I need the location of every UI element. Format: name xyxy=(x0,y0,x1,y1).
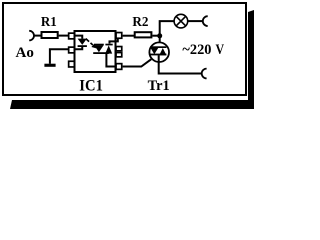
shadow right xyxy=(248,10,254,109)
wire lamp to top terminal xyxy=(187,20,202,22)
wire junction up to lamp xyxy=(160,21,175,37)
phototriac triangle down xyxy=(94,45,103,52)
IC1 pin right 4 xyxy=(116,64,122,70)
ground wire from IC1 pin left 2 xyxy=(50,49,69,64)
IC1 pin right 2 xyxy=(116,47,122,51)
IC1 pin left 2 xyxy=(69,47,75,53)
triac Tr1 triangle up xyxy=(159,48,166,55)
phototriac bottom bar xyxy=(93,52,109,54)
lamp cross stroke 1 xyxy=(176,16,185,25)
lamp cross stroke 2 xyxy=(176,16,185,25)
triac Tr1 top bar xyxy=(150,46,166,48)
svg-text:Ao: Ao xyxy=(16,44,35,61)
LED triangle inside IC1 xyxy=(78,39,87,45)
resistor R2 xyxy=(135,32,152,37)
LED cathode lead to pin left 2 xyxy=(75,47,83,49)
junction dot xyxy=(157,33,162,38)
phototriac lead to pin right 4 xyxy=(106,54,116,67)
node A0 terminal xyxy=(29,31,34,41)
svg-text:Tr1: Tr1 xyxy=(148,78,170,94)
phototriac top bar left xyxy=(94,44,104,46)
triac Tr1 circle xyxy=(149,42,169,62)
phototriac lead to pin right 1 xyxy=(110,39,118,44)
resistor R1 xyxy=(42,32,58,38)
LED anode lead inside IC1 xyxy=(75,36,83,39)
wire Tr1 down to bottom terminal xyxy=(159,55,202,73)
optocoupler IC1 body xyxy=(75,31,116,72)
IC1 pin right 3 xyxy=(116,53,122,57)
svg-text:R1: R1 xyxy=(41,14,57,29)
wire R1 to IC1 pin xyxy=(59,35,69,37)
wire junction down to Tr1 xyxy=(159,36,161,47)
LED cathode bar xyxy=(78,45,87,47)
wire R2 to junction xyxy=(152,35,158,37)
light arrow dashes xyxy=(86,39,93,45)
light arrow head xyxy=(91,44,96,49)
svg-text:~220: ~220 xyxy=(182,42,211,58)
terminal 220V top xyxy=(203,16,208,26)
gate wire IC1 to Tr1 xyxy=(123,59,152,66)
shadow bottom xyxy=(10,100,254,109)
triac Tr1 triangle down xyxy=(151,48,159,54)
lamp xyxy=(174,14,188,28)
svg-text:R2: R2 xyxy=(132,14,148,29)
phototriac triangle up xyxy=(105,45,112,53)
triac Tr1 bottom bar xyxy=(150,54,167,56)
IC1 pin left 1 xyxy=(69,33,75,39)
svg-text:V: V xyxy=(216,42,225,58)
svg-text:IC1: IC1 xyxy=(79,77,103,94)
IC1 pin left 3 xyxy=(69,61,75,67)
terminal 220V bottom xyxy=(202,69,207,79)
IC1 pin right 1 xyxy=(116,33,122,39)
ground xyxy=(44,64,55,67)
phototriac top bar right xyxy=(105,44,112,46)
wire IC1 pin right 1 to R2 xyxy=(123,35,135,37)
wire terminal to R1 xyxy=(34,35,42,37)
